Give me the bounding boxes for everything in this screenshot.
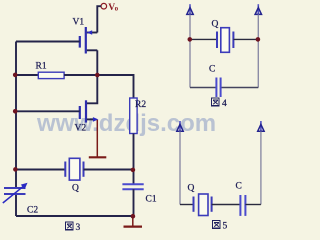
crystal Q [65, 158, 83, 180]
transistor V2 [80, 100, 99, 122]
junction node dots [13, 73, 135, 219]
crystal Q (figure 4) [217, 28, 233, 53]
ground (V2 source) [89, 156, 107, 158]
wire crystal to C1 node [84, 169, 134, 171]
svg-text:C2: C2 [27, 206, 38, 216]
wire V1 source down to node [96, 50, 98, 75]
label Vo [108, 3, 118, 13]
wire Vo to V1 drain [97, 6, 101, 32]
wire left rail to crystal [16, 169, 65, 171]
resistor R2 [130, 98, 137, 134]
wire node to R2 top [97, 75, 133, 98]
wire figure5 left lead [180, 204, 194, 206]
svg-text:C1: C1 [146, 195, 157, 205]
figure 4: arrow up left [187, 4, 193, 15]
wire figure4 top right lead [233, 38, 258, 40]
figure 5: arrow up right [258, 121, 264, 132]
capacitor C1 [122, 184, 143, 189]
wire figure5 middle lead [212, 204, 241, 206]
wire bottom rail [16, 215, 134, 217]
wire node down to V2 drain [87, 75, 98, 103]
wire left rail [15, 42, 17, 217]
label 图3 [66, 222, 81, 233]
svg-text:o: o [115, 5, 119, 13]
label 图4 [212, 98, 228, 109]
wire figure4 top left lead [190, 38, 217, 40]
wire V2 gate to left rail [16, 110, 80, 112]
junction dots (figure 4) [188, 37, 261, 42]
svg-text:R1: R1 [36, 62, 47, 72]
capacitor C2 (trimmer) [3, 183, 28, 203]
wire figure4 bottom rail [190, 87, 258, 89]
wire figure5 right lead [245, 204, 261, 206]
transistor V1 [80, 27, 98, 54]
wire figure5 left vertical [179, 132, 181, 205]
svg-text:Q: Q [212, 20, 219, 30]
figure 5: arrow up left [177, 121, 183, 132]
svg-text:Q: Q [188, 184, 195, 194]
svg-text:C: C [236, 182, 242, 192]
wire figure4 right vertical [257, 15, 259, 88]
svg-text:R2: R2 [135, 100, 146, 110]
wire V2 source to ground (red) [96, 120, 98, 157]
svg-text:4: 4 [222, 99, 227, 109]
crystal Q (figure 5) [194, 194, 212, 216]
wire R1 right lead [64, 74, 97, 76]
resistor R1 [38, 72, 64, 78]
ground (bottom) [124, 216, 143, 227]
wire V1 gate to left rail [16, 41, 80, 43]
label 图5 [213, 221, 228, 232]
wire R2 bottom to C1 [133, 134, 135, 185]
wire figure4 left vertical [189, 15, 191, 88]
svg-text:C: C [209, 65, 215, 75]
svg-text:5: 5 [223, 222, 228, 232]
capacitor C (figure 5) [240, 195, 245, 216]
wire figure5 right vertical [260, 132, 262, 205]
svg-text:Q: Q [72, 184, 79, 194]
wire R1 left lead [16, 74, 38, 76]
svg-text:V2: V2 [75, 124, 87, 134]
capacitor C (figure 4) [216, 78, 220, 98]
terminal Vo [101, 3, 107, 9]
figure 4: arrow up right [255, 4, 261, 15]
svg-text:3: 3 [76, 223, 81, 233]
wire C1 bottom [133, 189, 135, 216]
svg-text:V1: V1 [73, 18, 85, 28]
